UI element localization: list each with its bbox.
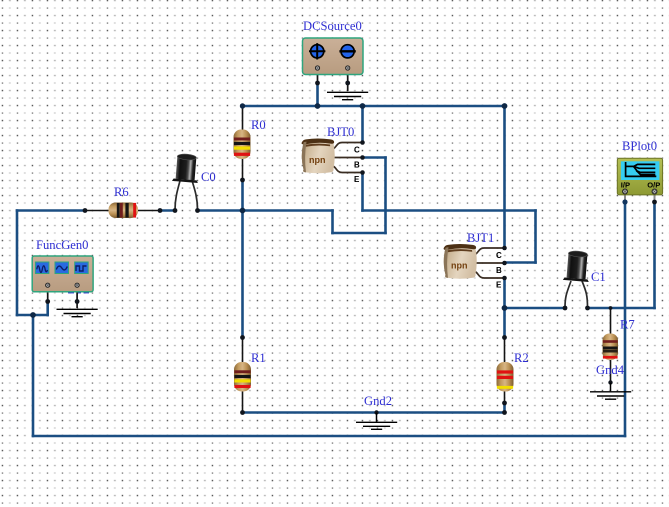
wire: R0 bottom to R1 top vertical <box>241 180 244 338</box>
node: VCC at BJT0 collector drop <box>360 103 366 109</box>
svg-text:B: B <box>354 161 360 170</box>
wire: bias node jog down <box>331 211 334 234</box>
resistor R7 <box>603 306 619 385</box>
wire: BJT0 collector drop from VCC rail <box>361 106 364 143</box>
wire: DCSource0 plus terminal drop to VCC rail <box>316 83 319 106</box>
node: FuncGen tap junction <box>30 312 36 318</box>
svg-text:BJT0: BJT0 <box>327 125 354 139</box>
transistor Q BJT0 <box>302 139 365 185</box>
node: VCC right corner <box>502 103 508 109</box>
svg-text:C1: C1 <box>591 270 606 284</box>
wire: into BJT1 base pin <box>505 261 536 264</box>
svg-text:E: E <box>496 281 502 290</box>
wire: BJT1 emitter drop <box>503 278 506 308</box>
svg-text:I/P: I/P <box>621 180 630 189</box>
wire: emitter2 horizontal to C1 <box>505 307 565 310</box>
svg-text:R7: R7 <box>620 318 635 332</box>
ground Gnd3 symbol under FuncGen0 right pin <box>57 309 98 316</box>
wire: BPlot I/P riser <box>624 202 627 436</box>
wire: bias jog horizontal <box>333 232 386 235</box>
svg-text:C: C <box>496 251 502 260</box>
resistor R1 <box>234 335 251 415</box>
svg-text:DCSource0: DCSource0 <box>303 19 362 33</box>
junction node dots on wires <box>30 103 507 318</box>
svg-text:npn: npn <box>451 261 468 271</box>
function generator FuncGen0 <box>32 256 93 308</box>
ground Gnd2 <box>356 410 397 429</box>
svg-text:E: E <box>354 175 360 184</box>
svg-text:O/P: O/P <box>647 180 660 189</box>
svg-text:BJT1: BJT1 <box>467 231 494 245</box>
wire: R2 branch down from emitter2 node <box>503 308 506 338</box>
svg-text:C0: C0 <box>201 170 216 184</box>
wire: bottom rail horizontal to BPlot input <box>33 435 625 438</box>
svg-text:BPlot0: BPlot0 <box>622 139 657 153</box>
ground Gnd4 <box>590 383 631 400</box>
svg-text:C: C <box>354 146 360 155</box>
svg-text:R1: R1 <box>251 351 266 365</box>
wire: emitter net vertical down <box>534 211 537 263</box>
wire: input net horizontal FuncGen to R6 <box>17 209 85 212</box>
node: bias node at R0/R1/C0 <box>240 208 246 214</box>
svg-text:R0: R0 <box>251 118 266 132</box>
wire: into BJT0 base pin <box>363 156 386 159</box>
svg-text:FuncGen0: FuncGen0 <box>36 238 88 252</box>
svg-text:Gnd2: Gnd2 <box>364 394 392 408</box>
node: VCC at DCSource drop <box>315 103 321 109</box>
wire: VCC top rail horizontal <box>243 105 505 108</box>
transistor Q BJT1 <box>444 244 507 290</box>
wire: BJT0 emitter drop <box>361 173 364 211</box>
wire: bias jog vertical up to BJT0 base level <box>384 158 387 234</box>
resistor R2 <box>497 335 514 415</box>
wire: R6 right lead to C0 left lead <box>160 209 175 212</box>
wire: VCC rail right drop to BJT1 collector <box>503 106 506 248</box>
resistor R0 <box>234 104 251 183</box>
DC source U DCSource0 <box>303 38 364 91</box>
node: emitter2/R2/C1 junction <box>502 305 508 311</box>
wire: C1 right lead to output riser <box>588 307 655 310</box>
wire: emitter net horizontal to BJT1 <box>363 209 536 212</box>
wire: source tap vertical down to bottom rail <box>32 315 35 436</box>
capacitor C1 <box>563 250 592 310</box>
capacitor C0 <box>172 153 200 213</box>
wire: input net left vertical <box>16 211 19 316</box>
svg-text:R6: R6 <box>114 185 129 199</box>
wire: C0 right lead to bias node horizontal <box>198 209 333 212</box>
wire: R2 bottom stub <box>503 403 506 413</box>
ground Gnd0 under DCSource0 minus pin <box>327 92 368 99</box>
svg-text:R2: R2 <box>514 351 529 365</box>
svg-text:npn: npn <box>309 155 326 165</box>
bode plotter BPlot0 <box>617 158 662 204</box>
node: VCC at R0 top <box>240 103 245 108</box>
wire: FuncGen plus pin drop <box>46 302 49 316</box>
svg-text:B: B <box>496 266 502 275</box>
wire: FuncGen jog horizontal <box>17 314 48 317</box>
label Gnd3 (mostly hidden behind FuncGen0 box) <box>68 291 89 293</box>
wire: ground rail R1 to R2 <box>243 411 505 414</box>
wire: BPlot O/P riser <box>653 202 656 308</box>
resistor R6 <box>83 203 163 219</box>
svg-text:Gnd4: Gnd4 <box>596 363 625 377</box>
